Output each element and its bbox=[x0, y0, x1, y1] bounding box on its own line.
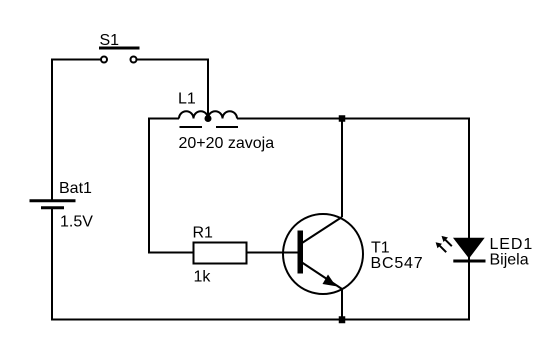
transistor T1 bbox=[283, 214, 363, 294]
wire collector vertical bbox=[341, 119, 343, 218]
svg-text:T1: T1 bbox=[371, 240, 390, 257]
switch S1 bbox=[99, 48, 140, 63]
resistor R1 bbox=[194, 243, 247, 264]
node junction emitter-bottom rail bbox=[339, 316, 346, 323]
inductor L1 bbox=[179, 111, 238, 127]
svg-text:Bat1: Bat1 bbox=[59, 180, 92, 197]
LED1 bbox=[436, 236, 486, 261]
wire inductor rail right to LED branch bbox=[237, 118, 470, 120]
wire LED branch vertical bbox=[468, 118, 470, 321]
svg-text:BC547: BC547 bbox=[371, 255, 424, 272]
svg-text:20+20 zavoja: 20+20 zavoja bbox=[179, 135, 275, 152]
svg-text:1k: 1k bbox=[194, 269, 212, 286]
svg-text:1.5V: 1.5V bbox=[60, 214, 93, 231]
wire left vertical bottom (battery- to bottom rail) bbox=[51, 208, 53, 321]
wire switch to inductor center tap bbox=[137, 60, 208, 119]
svg-text:LED1: LED1 bbox=[490, 236, 534, 253]
svg-text:R1: R1 bbox=[193, 225, 214, 242]
svg-text:L1: L1 bbox=[178, 91, 196, 108]
battery Bat1 bbox=[30, 201, 76, 208]
svg-text:Bijela: Bijela bbox=[490, 252, 529, 269]
wire left branch down to resistor bbox=[149, 118, 193, 253]
node junction collector-rail bbox=[339, 115, 346, 122]
svg-text:S1: S1 bbox=[100, 32, 120, 49]
wire inductor rail left stub bbox=[148, 118, 179, 120]
node center tap of L1 bbox=[205, 115, 212, 122]
wire emitter vertical bbox=[341, 289, 343, 320]
wire left vertical top (battery+ to switch level) bbox=[52, 60, 101, 201]
wire bottom rail bbox=[51, 319, 470, 321]
wire resistor to transistor base bbox=[247, 252, 298, 254]
